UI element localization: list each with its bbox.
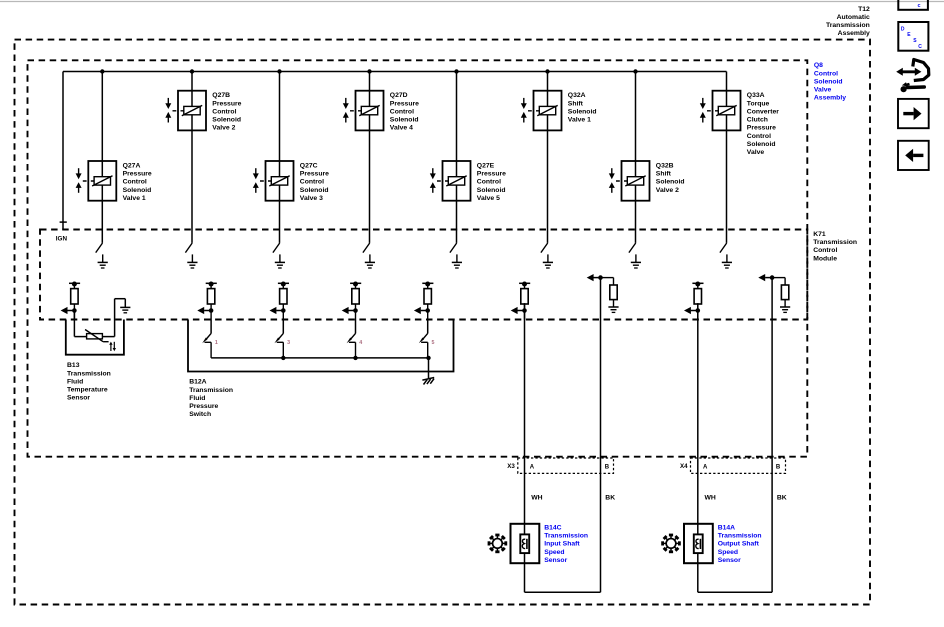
node signal junction (switch 5) [425,308,430,313]
svg-text:Output Shaft: Output Shaft [718,541,760,548]
label X3 [507,463,515,470]
svg-text:Control: Control [477,179,501,186]
label Q27D [390,92,419,132]
ground TFT low reference [120,307,130,312]
svg-text:B: B [605,464,610,470]
sensor B14A [684,524,713,563]
svg-text:Control: Control [300,179,324,186]
label BK ISS [605,495,615,502]
svg-text:Valve 1: Valve 1 [123,195,146,202]
svg-text:Control: Control [747,133,771,140]
wire signal to other page (switch 3) [270,307,284,314]
wire signal to other page (switch 1) [197,307,211,314]
connector X3 [518,458,614,473]
label Q27A [123,163,152,203]
ground Q27C driver [275,254,285,268]
label Q8 Control Solenoid Valve Assembly [814,62,846,102]
svg-text:Solenoid: Solenoid [300,187,329,194]
wire Q32A control feed [545,69,549,243]
wire low reference to other page (ISS) [587,274,601,281]
label B13 Transmission Fluid Temperature Sensor [67,362,111,402]
svg-text:Solenoid: Solenoid [212,117,241,124]
svg-text:IGN: IGN [56,236,68,243]
svg-text:Valve 2: Valve 2 [212,125,235,132]
wire ISS signal WH [524,303,526,592]
wire pressure switch 4 signal [355,320,357,334]
wire TFT signal [74,311,86,337]
ground Q33A driver [722,254,732,268]
label BK OSS [777,495,787,502]
svg-text:Valve 5: Valve 5 [477,195,500,202]
label B14C Transmission Input Shaft Speed Sensor [544,524,588,564]
connector X4 [691,458,786,473]
svg-text:K71: K71 [813,231,826,238]
resistor TCM pull-up (switch 5) [422,282,433,320]
wire IGN feed [60,72,67,230]
resistor TCM pull-up (ISS) [519,282,530,320]
svg-text:Transmission: Transmission [67,370,111,377]
resistor TCM pull-up (switch 4) [350,282,361,320]
svg-text:Pressure: Pressure [189,403,218,410]
label T12 Automatic Transmission Assembly [826,6,870,37]
svg-text:Q27C: Q27C [300,163,318,170]
switch B12A contact 3 [274,333,283,358]
solenoid Q27E [430,161,471,201]
solenoid Q27D [343,91,384,131]
svg-text:Shift: Shift [568,100,584,107]
pin A X4 [703,464,708,470]
wire signal to other page (switch 5) [414,307,428,314]
svg-text:Pressure: Pressure [300,171,329,178]
svg-text:Speed: Speed [718,549,738,556]
wire signal to other page (ISS) [511,307,525,314]
wire ignition voltage bus [63,71,727,73]
svg-text:Switch: Switch [189,411,211,418]
wire signal to other page (switch 4) [342,307,356,314]
switch driver Q27B low side [185,243,192,253]
svg-text:Solenoid: Solenoid [814,78,843,85]
svg-text:Q33A: Q33A [747,92,765,99]
svg-text:Input Shaft: Input Shaft [544,541,580,548]
svg-text:Valve: Valve [814,87,832,94]
ground Q32A driver [543,254,553,268]
pin B X3 [605,464,610,470]
svg-text:Sensor: Sensor [544,557,567,564]
svg-text:Solenoid: Solenoid [123,187,152,194]
Q8 Control Solenoid Valve Assembly boundary [28,60,808,456]
thermistor B13 element [85,330,109,342]
sensor B14C [511,524,540,563]
switch driver Q27D low side [363,243,370,253]
pin 3 B12A [287,340,290,346]
switch driver Q27E low side [450,243,457,253]
svg-text:Q32A: Q32A [568,92,586,99]
svg-text:BK: BK [605,495,615,502]
wire TFT low reference [102,299,125,337]
resistor TCM pull-up (switch 1) [206,282,217,320]
label B14A Transmission Output Shaft Speed Sensor [718,524,762,564]
svg-text:Q32B: Q32B [656,163,674,170]
wire signal to other page (TFT) [61,307,75,314]
wire Q33A control feed [726,72,728,243]
label K71 Transmission Control Module [813,231,857,262]
node signal junction (switch 1) [209,308,214,313]
svg-text:Sensor: Sensor [67,395,90,402]
pin 5 B12A [432,340,435,346]
resistor TCM bias (ISS) [601,278,618,307]
pin 1 B12A [215,340,218,346]
svg-text:B13: B13 [67,362,80,369]
svg-text:Pressure: Pressure [477,171,506,178]
node signal junction (OSS) [696,308,701,313]
wire Q27D control feed [367,69,371,243]
svg-text:Solenoid: Solenoid [390,117,419,124]
svg-text:A: A [530,464,535,470]
svg-text:Transmission: Transmission [189,387,233,394]
pin 4 B12A [359,340,362,346]
svg-text:Valve: Valve [747,149,765,156]
wire OSS loop bottom [698,591,772,593]
svg-text:BK: BK [777,495,787,502]
svg-text:X3: X3 [507,463,515,470]
wire Q27B control feed [190,69,194,243]
label Q33A [747,92,779,156]
svg-text:Fluid: Fluid [67,378,83,385]
label Q27E [477,163,506,203]
svg-text:Temperature: Temperature [67,387,108,394]
wire OSS low BK [771,278,773,593]
svg-text:B: B [776,464,781,470]
svg-text:Q27A: Q27A [123,163,141,170]
svg-text:5: 5 [432,340,435,346]
node signal junction (ISS) [522,308,527,313]
label WH OSS [705,495,716,502]
icon forward arrow [898,99,929,128]
solenoid Q27A [76,161,117,201]
svg-text:Q27D: Q27D [390,92,408,99]
svg-text:Shift: Shift [656,171,672,178]
wire Q27A control feed [100,69,104,243]
node speed sensor low reference (ISS) [598,275,603,280]
svg-text:Module: Module [813,255,837,262]
svg-text:Control: Control [212,108,236,115]
ground Q27A driver [98,254,108,268]
icon back arrow [898,141,929,170]
svg-text:Q27B: Q27B [212,92,230,99]
solenoid Q33A [700,91,741,131]
svg-text:B14C: B14C [544,524,561,531]
ground TCM bias (OSS) [780,307,790,312]
solenoid Q27C [253,161,294,201]
svg-text:S: S [913,38,917,44]
svg-text:c: c [918,3,921,9]
wire B12A case ground tap [428,358,430,378]
gear rotor (B14A) [661,534,681,554]
wire pressure switch 5 signal [427,320,429,334]
sensor B13 outline [66,320,124,355]
gear rotor (B14C) [488,534,508,554]
resistor TCM pull-up (OSS) [692,282,703,320]
svg-text:B12A: B12A [189,379,206,386]
wire Q32B control feed [633,69,637,243]
ground TCM bias (ISS) [608,307,618,312]
node speed sensor low reference (OSS) [770,275,775,280]
label Q32A [568,92,597,123]
svg-text:Clutch: Clutch [747,117,768,124]
temperature arrows B13 [109,342,116,352]
svg-text:Q27E: Q27E [477,163,495,170]
switch driver Q33A low side [720,243,727,253]
svg-text:Solenoid: Solenoid [477,187,506,194]
wire pressure switch 3 signal [282,320,284,334]
ground Q32B driver [631,254,641,268]
wire Q27C control feed [277,69,281,243]
svg-text:Speed: Speed [544,549,564,556]
wire Q27E control feed [454,69,458,243]
svg-text:Pressure: Pressure [747,125,776,132]
svg-text:Valve 1: Valve 1 [568,117,591,124]
solenoid Q32B [609,161,650,201]
svg-text:1: 1 [215,340,218,346]
switch B12A outline [188,320,454,372]
svg-text:Sensor: Sensor [718,557,741,564]
svg-text:Valve 3: Valve 3 [300,195,323,202]
icon partial top box [898,0,928,10]
svg-text:Fluid: Fluid [189,395,205,402]
svg-text:Solenoid: Solenoid [568,108,597,115]
svg-text:Torque: Torque [747,100,770,107]
svg-text:Transmission: Transmission [826,22,870,29]
top gray rule [0,1,944,3]
svg-text:Control: Control [814,70,838,77]
svg-text:C: C [918,44,922,50]
wire OSS signal WH [697,303,699,592]
svg-text:Pressure: Pressure [212,100,241,107]
resistor TCM bias (OSS) [772,278,789,307]
svg-text:E: E [907,32,911,38]
solenoid Q32A [521,91,562,131]
ground Q27E driver [452,254,462,268]
svg-text:X4: X4 [680,463,688,470]
svg-text:Solenoid: Solenoid [656,179,685,186]
K71 Transmission Control Module boundary [40,230,807,320]
wire ISS low BK [600,278,602,593]
svg-text:Control: Control [813,247,837,254]
node signal junction (switch 4) [353,308,358,313]
label X4 [680,463,688,470]
svg-text:Assembly: Assembly [814,95,846,102]
svg-text:Control: Control [123,179,147,186]
ground Q27D driver [365,254,375,268]
icon routing squiggle [896,60,929,93]
svg-text:A: A [703,464,708,470]
label Q27C [300,163,329,203]
switch driver Q27A low side [96,243,103,253]
svg-text:Valve 4: Valve 4 [390,125,413,132]
svg-text:Solenoid: Solenoid [747,141,776,148]
switch driver Q27C low side [273,243,280,253]
svg-text:Converter: Converter [747,108,779,115]
svg-text:WH: WH [531,495,542,502]
svg-text:Valve 2: Valve 2 [656,187,679,194]
svg-text:Automatic: Automatic [837,14,870,21]
switch driver Q32A low side [541,243,548,253]
switch B12A contact 4 [347,333,356,358]
switch driver Q32B low side [629,243,636,253]
svg-text:Transmission: Transmission [813,239,857,246]
svg-text:Pressure: Pressure [390,100,419,107]
wire pressure switch 1 signal [210,320,212,334]
switch B12A contact 5 [419,333,428,358]
svg-text:Pressure: Pressure [123,171,152,178]
svg-text:D: D [901,26,905,32]
svg-text:4: 4 [359,340,362,346]
label Q32B [656,163,685,194]
ground Q27B driver [187,254,197,268]
svg-text:WH: WH [705,495,716,502]
label B12A Transmission Fluid Pressure Switch [189,379,233,419]
wire low reference to other page (OSS) [758,274,772,281]
svg-text:T12: T12 [858,6,870,13]
svg-text:B14A: B14A [718,524,735,531]
node signal junction (TFT) [72,308,77,313]
svg-text:Control: Control [390,108,414,115]
pin B X4 [776,464,781,470]
node IGN [56,236,68,243]
wire signal to other page (OSS) [684,307,698,314]
label WH ISS [531,495,542,502]
wire ISS loop bottom [525,591,601,593]
solenoid Q27B [165,91,206,131]
resistor TCM pull-up (TFT) [69,282,80,320]
ground B12A case (chassis) [422,378,434,385]
svg-text:Transmission: Transmission [718,533,762,540]
node signal junction (switch 3) [281,308,286,313]
label Q27B [212,92,241,132]
svg-text:Transmission: Transmission [544,533,588,540]
resistor TCM pull-up (switch 3) [278,282,289,320]
pin A X3 [530,464,535,470]
svg-text:Q8: Q8 [814,62,823,69]
svg-text:Assembly: Assembly [838,30,870,37]
wire B12A common bus [211,356,431,360]
svg-text:3: 3 [287,340,290,346]
switch B12A contact 1 [202,333,211,358]
icon DESC box [898,22,928,51]
